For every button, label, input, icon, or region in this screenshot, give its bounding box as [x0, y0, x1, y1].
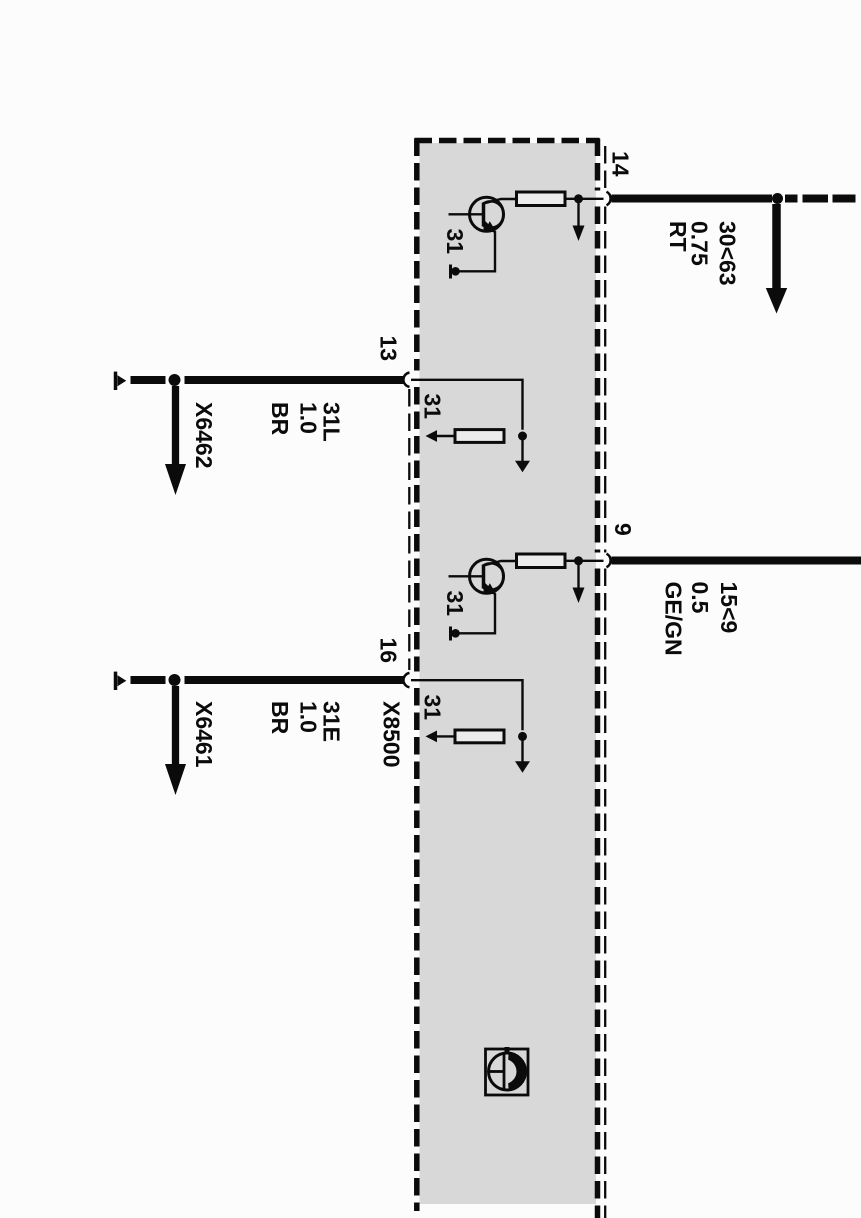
svg-text:31: 31	[442, 591, 468, 617]
svg-text:0.75: 0.75	[687, 221, 713, 266]
svg-text:0.5: 0.5	[687, 582, 713, 614]
svg-text:BR: BR	[267, 701, 293, 735]
svg-text:31: 31	[442, 229, 468, 255]
svg-text:31: 31	[420, 695, 446, 721]
svg-text:15<9: 15<9	[716, 582, 742, 634]
svg-text:31: 31	[420, 394, 446, 420]
svg-text:16: 16	[376, 638, 402, 664]
svg-text:9: 9	[610, 523, 636, 536]
svg-text:X6462: X6462	[191, 402, 217, 469]
svg-text:X6461: X6461	[191, 701, 217, 768]
svg-text:13: 13	[376, 336, 402, 362]
svg-text:14: 14	[608, 151, 634, 177]
svg-text:31E: 31E	[319, 701, 345, 742]
svg-text:1.0: 1.0	[296, 402, 322, 434]
svg-text:31L: 31L	[319, 402, 345, 442]
svg-text:30<63: 30<63	[715, 221, 741, 286]
svg-text:GE/GN: GE/GN	[661, 582, 687, 656]
svg-text:1.0: 1.0	[296, 701, 322, 733]
svg-text:BR: BR	[267, 402, 293, 436]
svg-text:X8500: X8500	[379, 701, 405, 768]
